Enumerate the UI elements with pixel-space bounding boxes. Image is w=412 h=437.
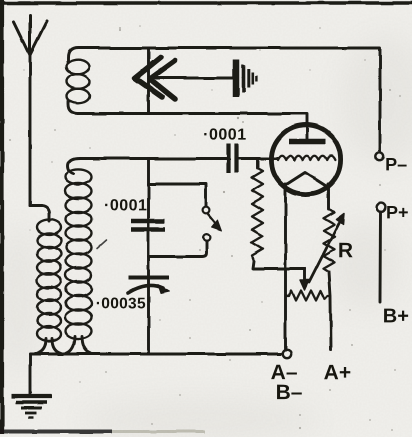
tube grid (wavy)	[278, 156, 335, 160]
border frame top	[0, 1, 412, 4]
svg-text:·00035: ·00035	[96, 295, 146, 312]
wire plate loop bottom edge to tube plate	[78, 114, 307, 140]
ground	[12, 394, 52, 398]
terminal A-/B-	[283, 350, 291, 358]
resistor grid leak: stem	[256, 159, 259, 169]
wire bottom bus	[30, 353, 283, 356]
wire filament left leg down to A-/B- terminal	[284, 184, 287, 350]
wire plate loop top-left corner	[68, 48, 78, 62]
wire plate loop top edge to P- corner	[78, 48, 380, 152]
coil L2 (secondary, grid coil)	[66, 169, 92, 338]
wire P+ to B+ stub	[379, 212, 382, 302]
tube plate bar	[289, 139, 325, 145]
wire capacitor to tube grid	[239, 157, 279, 160]
arrow of variable resistor R	[309, 220, 341, 283]
tube filament	[284, 173, 326, 187]
variable condenser arrow (chevrons) on tickler branch	[147, 48, 150, 114]
wire antenna to coil L1	[30, 206, 49, 221]
stray pencil mark	[97, 240, 106, 248]
svg-text:P+: P+	[386, 202, 409, 222]
resistor grid leak zigzag	[252, 168, 263, 261]
svg-text:R: R	[338, 239, 353, 262]
resistor R zigzag (variable)	[324, 209, 335, 272]
rheostat (filament) zigzag	[286, 291, 331, 301]
capacitor C2 .0001 (horizontal plates)	[131, 219, 165, 223]
wire grid line (loop top edge to capacitor)	[80, 157, 226, 160]
coil L3 (tickler, in plate loop)	[67, 60, 90, 104]
antenna	[14, 15, 47, 55]
svg-text:P–: P–	[385, 154, 407, 174]
svg-text:·0001: ·0001	[104, 197, 147, 214]
svg-text:B–: B–	[276, 381, 303, 404]
coil L1 (primary, antenna coil)	[37, 220, 61, 342]
svg-text:B+: B+	[383, 305, 409, 327]
wire tickler branch to switch	[147, 159, 150, 355]
border frame bottom-left piece	[0, 430, 112, 434]
border frame left	[0, 0, 4, 434]
wire R bottom to rheostat right end and A+ lead	[329, 272, 331, 350]
terminal P+	[377, 203, 386, 212]
crystal / fixed condenser bars	[233, 59, 240, 97]
terminal P-	[375, 152, 383, 160]
wire L2 top corner from grid line	[68, 159, 80, 175]
wire plate loop bottom-left corner	[68, 101, 78, 114]
svg-text:A+: A+	[324, 361, 351, 384]
wire bus to ground	[29, 354, 32, 394]
wire grid leak bottom to wiper	[253, 261, 305, 269]
wire chevron to crystal bars	[156, 77, 233, 80]
wire filament right leg to R	[327, 184, 330, 209]
wiper arrow onto rheostat	[303, 269, 306, 285]
wire L1 bottom foot to bus	[37, 339, 61, 354]
tube V1 envelope	[271, 125, 340, 194]
capacitor C1 .0001 grid condenser	[226, 144, 230, 174]
wire L2 bottom foot to bus	[66, 336, 91, 354]
capacitor C3 curved arrow	[128, 285, 163, 293]
switch blade and contacts	[203, 207, 210, 214]
svg-text:·0001: ·0001	[203, 126, 246, 143]
capacitor C3 .00035 variable: plate	[129, 276, 169, 280]
wire antenna lead down	[29, 55, 32, 206]
